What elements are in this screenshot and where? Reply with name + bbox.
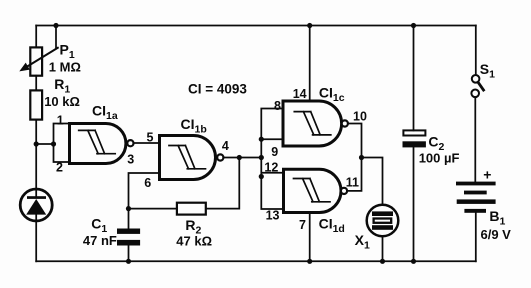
node: pin9 junction [259,137,264,142]
svg-text:13: 13 [266,208,280,222]
svg-text:CI1b: CI1b [181,116,207,136]
CI1d output bubble [341,188,347,194]
CI1c output bubble [342,120,348,126]
node: pin12 junction [259,174,264,179]
node: C1 bottom junction [126,259,131,264]
svg-text:B1: B1 [489,208,505,228]
svg-text:1 MΩ: 1 MΩ [49,60,81,75]
svg-text:47 kΩ: 47 kΩ [176,234,212,249]
CI1d schmitt glyph [294,179,331,202]
wire R2 to C1 node [129,208,177,210]
wire pin6 to C1 node [129,173,160,209]
op-amp gate CI1a body [70,124,126,164]
transducer X1 [367,205,399,237]
wire junction to X1 [362,158,383,205]
svg-text:11: 11 [346,175,359,189]
svg-text:2: 2 [56,161,63,175]
wire top supply rail [36,25,476,27]
wire pin10 output [348,124,362,158]
potentiometer P1 wiper arrow [19,48,58,72]
CI1c schmitt glyph [294,112,331,135]
wire pin3 to pin5 [134,142,160,144]
svg-text:+: + [483,167,491,183]
wire P1 to R1 [35,76,37,91]
op-amp gate CI1c body [283,101,342,146]
resistor R2 [177,203,206,215]
svg-text:100 µF: 100 µF [419,150,460,165]
svg-text:X1: X1 [355,232,370,252]
node: C1 top junction [126,206,131,211]
svg-text:7: 7 [299,218,306,232]
wire left column top [35,26,37,48]
potentiometer P1 body [30,47,42,75]
wire C2 top [413,26,415,131]
node: feed junction [259,155,264,160]
svg-text:14: 14 [293,87,307,101]
potentiometer P1 wiper wire [55,26,57,49]
svg-text:10: 10 [353,110,367,124]
wire CI1c/CI1d input connector [261,109,283,210]
wire bottom ground rail [36,260,476,262]
node: pin4 / R2 junction [237,155,242,160]
svg-text:10 kΩ: 10 kΩ [44,94,80,109]
svg-text:47 nF: 47 nF [83,233,117,248]
node: pin14 rail junction [307,23,312,28]
wire R2 feedback branch [206,158,240,209]
capacitor C2 [403,130,426,147]
node: C2 rail junction [411,23,416,28]
svg-text:6/9 V: 6/9 V [481,227,512,242]
CI1a output bubble [127,140,133,146]
node: R1 bottom junction [34,141,39,146]
node: wiper to rail junction [53,23,58,28]
wire battery to ground rail [475,213,477,261]
wire CI1a input connector [54,124,70,163]
node: CI1a input junction [51,141,56,146]
wire pin4 output [223,157,261,159]
wire pin 14 to rail [309,26,311,102]
capacitor C1 [117,209,140,262]
wire pin11 output [347,158,361,191]
wire R1 to LED [35,120,37,197]
svg-text:9: 9 [271,145,278,159]
svg-text:1: 1 [57,113,64,127]
LED D1 [20,189,52,221]
svg-text:CI1a: CI1a [92,103,118,123]
svg-text:4: 4 [222,139,229,153]
wire C2 bottom [413,147,415,261]
svg-text:S1: S1 [480,61,495,81]
CI1b schmitt glyph [169,146,206,169]
svg-text:CI = 4093: CI = 4093 [188,82,247,97]
wire LED to bottom rail [35,214,37,261]
switch S1 [471,75,483,97]
svg-text:CI1d: CI1d [319,216,345,236]
node: C2 ground junction [411,259,416,264]
op-amp gate CI1d body [284,169,341,212]
svg-text:8: 8 [274,99,281,113]
node: pin7 rail junction [307,259,312,264]
CI1b output bubble [217,154,223,160]
svg-text:12: 12 [264,160,278,174]
battery B1 [456,182,496,213]
node: outputs junction [359,155,364,160]
wire rail to S1 [475,26,477,76]
wire S1 to battery [474,97,476,181]
op-amp gate CI1b body [160,136,216,180]
resistor R1 [30,90,42,119]
CI1a schmitt glyph [79,130,116,153]
wire X1 to ground rail [382,236,384,261]
wire pin 7 to ground rail [309,213,311,262]
svg-text:5: 5 [147,130,154,144]
wire junction to CI1a inputs [36,143,53,145]
node: X1 rail junction [380,259,385,264]
svg-text:R1: R1 [54,76,70,96]
svg-text:3: 3 [127,153,134,167]
svg-text:P1: P1 [60,42,75,62]
svg-text:6: 6 [144,176,151,190]
